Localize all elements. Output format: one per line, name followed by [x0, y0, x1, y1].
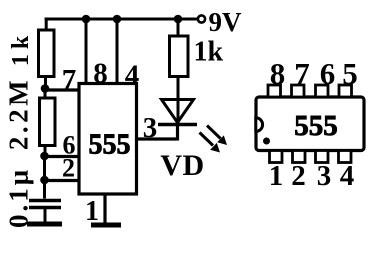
node: junction bus/pin8 wire	[82, 15, 91, 24]
wire: junction A to pin 7	[45, 88, 79, 91]
LED light arrow 1	[207, 126, 227, 146]
resistor R3 1k body	[170, 36, 189, 77]
wire: junction C down to capacitor	[43, 180, 46, 199]
svg-text:0.1μ: 0.1μ	[4, 167, 34, 228]
wire: R3 bottom to LED anode (through triangle)	[177, 77, 180, 124]
svg-text:555: 555	[89, 130, 131, 161]
LED light arrow 2	[200, 133, 221, 153]
terminal: 9V open circle	[198, 15, 205, 22]
wire: junction B to pin 6	[45, 155, 80, 158]
svg-text:2.2M: 2.2M	[4, 77, 34, 150]
wire: +9V top supply bus	[45, 18, 197, 21]
svg-text:3: 3	[317, 160, 332, 192]
wire: junction A down to R2 top	[44, 88, 47, 99]
wire: capacitor bottom stub	[44, 209, 47, 222]
U2 pin 1 (bottom stub)	[270, 151, 283, 163]
op-amp/IC U1: 555 timer box	[79, 84, 137, 195]
ground bar under capacitor	[27, 222, 62, 227]
node: junction bus/pin4 wire	[113, 15, 122, 24]
svg-text:7: 7	[294, 56, 310, 91]
node: junction A (R1/R2/pin7)	[41, 84, 50, 93]
svg-text:2: 2	[291, 160, 306, 192]
LED VD cathode bar	[158, 123, 197, 126]
svg-text:555: 555	[294, 110, 338, 142]
capacitor C1 top plate	[29, 199, 61, 203]
svg-text:4: 4	[125, 60, 140, 92]
svg-text:4: 4	[340, 160, 355, 192]
wire: pin 1 down from box	[103, 194, 106, 223]
LED VD triangle (anode)	[162, 100, 194, 123]
wire: R3 top stub	[177, 19, 180, 36]
svg-text:1k: 1k	[194, 37, 224, 68]
ground bar under pin 1	[91, 223, 121, 228]
wire: pin 8 to bus	[85, 19, 88, 82]
svg-text:6: 6	[320, 56, 336, 91]
wire: junction B down to junction C	[43, 156, 46, 180]
svg-text:VD: VD	[160, 149, 204, 182]
svg-text:8: 8	[270, 56, 286, 91]
svg-text:3: 3	[143, 112, 158, 144]
IC U2: 555 DIP-8 package body	[256, 97, 364, 151]
U2 pin 4 (bottom stub)	[339, 151, 352, 163]
wire: R1 bottom stub	[44, 77, 47, 87]
resistor R2 2.2M body	[40, 98, 56, 146]
U2 pin 7 (top stub)	[292, 85, 305, 97]
wire: R2 bottom stub	[44, 145, 47, 156]
node: junction C (pin2/C1)	[40, 176, 49, 185]
wire: bus corner down to R1 top	[45, 18, 48, 31]
node: junction B (R2/pin6)	[40, 152, 49, 161]
U2 pin-1 dot marker	[263, 138, 270, 145]
svg-text:1: 1	[85, 196, 99, 227]
node: junction bus/R3	[174, 15, 183, 24]
U2 pin 8 (top stub)	[268, 85, 281, 97]
U2 pin 3 (bottom stub)	[316, 151, 329, 163]
wire: pin 3 to LED cathode	[137, 123, 178, 141]
svg-text:7: 7	[62, 64, 77, 96]
svg-text:8: 8	[93, 58, 108, 90]
svg-text:5: 5	[342, 56, 358, 91]
svg-text:9V: 9V	[209, 7, 243, 37]
resistor R1 1k body	[39, 30, 55, 77]
svg-text:2: 2	[62, 154, 75, 183]
U2 pin 2 (bottom stub)	[293, 151, 306, 163]
U2 pin-1 notch (index mark on left edge)	[256, 118, 263, 132]
U2 pin 6 (top stub)	[316, 85, 329, 97]
capacitor C1 bottom plate	[29, 206, 61, 210]
wire: pin 4 to bus	[116, 19, 119, 82]
wire: junction C to pin 2	[45, 179, 80, 182]
svg-text:1: 1	[269, 160, 284, 192]
U2 pin 5 (top stub)	[339, 85, 352, 97]
svg-text:1k: 1k	[8, 31, 34, 66]
